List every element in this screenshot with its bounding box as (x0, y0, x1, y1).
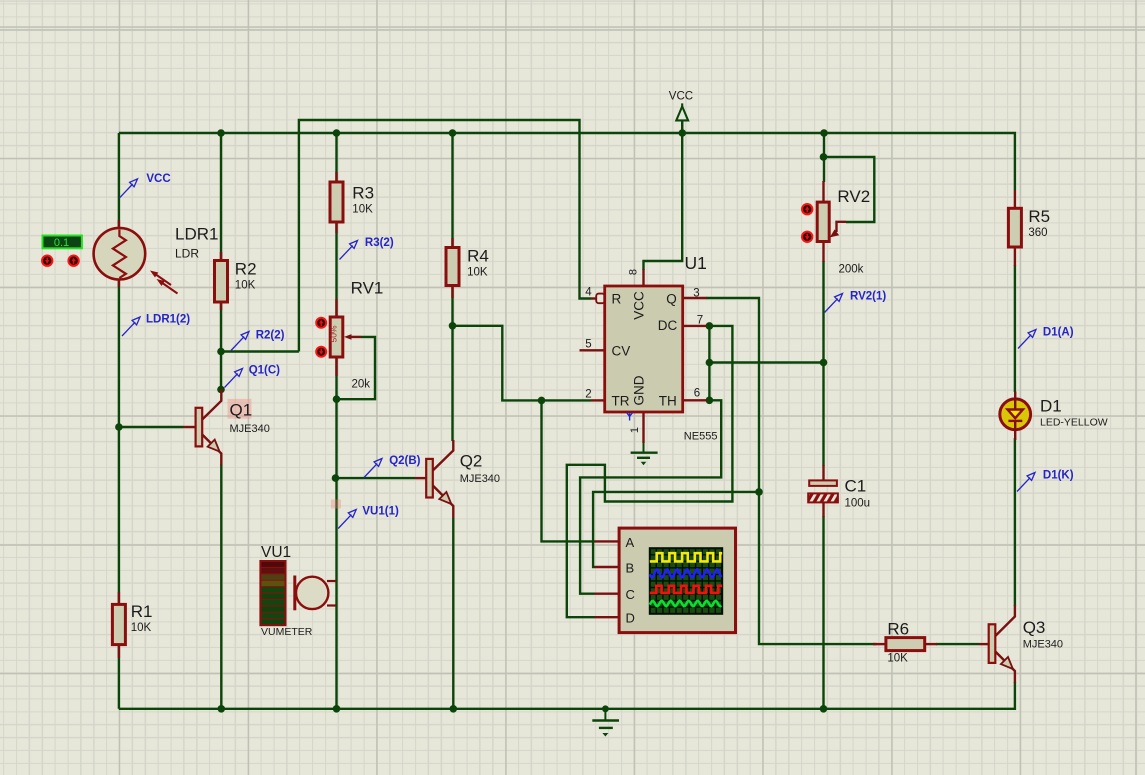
wire R4 junction to 555 TR pin (453, 326, 592, 401)
svg-text:LDR1(2): LDR1(2) (146, 314, 190, 326)
wire R6 to Q3 base (936, 643, 979, 645)
wire RV2 branch from top bus (823, 133, 825, 182)
junction dot bottom bus / VU1 (333, 705, 341, 713)
svg-text:VUMETER: VUMETER (261, 626, 313, 638)
potentiometer RV2 (817, 181, 846, 262)
svg-text:LDR1: LDR1 (175, 225, 218, 244)
svg-text:LED-YELLOW: LED-YELLOW (1040, 417, 1108, 429)
svg-text:U1: U1 (685, 253, 707, 273)
wire C1 bottom to bottom bus (822, 516, 824, 709)
junction dot RV1 bottom (333, 395, 341, 403)
svg-text:VCC: VCC (146, 173, 170, 185)
junction dot top bus / R3 (333, 129, 341, 137)
oscilloscope block (595, 528, 736, 633)
junction dot Q1 collector node (217, 386, 225, 394)
junction dot RV2 bottom / C1 top (820, 359, 828, 367)
junction dot Q/pin3 vertical at scope row (755, 488, 763, 496)
VU1 vumeter bar display (260, 561, 285, 625)
wire R5 to D1 to Q3 collector x=1015 (1014, 265, 1016, 392)
svg-text:8: 8 (628, 269, 640, 275)
oscilloscope screen (650, 548, 722, 614)
svg-text:VU1(1): VU1(1) (362, 506, 399, 518)
transistor Q3 (MJE340) (979, 605, 1015, 683)
net label R2(2) (231, 330, 285, 351)
net label Q2(B) (364, 455, 421, 478)
wire R2 / Q1 collector vertical x=221 (220, 133, 222, 390)
VU1 pin highlight mark (331, 500, 341, 509)
svg-text:R3(2): R3(2) (365, 237, 394, 249)
wire 555 pin3 Q to right vertical x=759 down to R6 (706, 298, 877, 644)
svg-text:C1: C1 (845, 477, 867, 496)
potentiometer RV1 (329, 299, 362, 376)
RV2 down button (802, 232, 812, 242)
net label D1(K) (1017, 470, 1074, 492)
wire DC loop to scope pin D (567, 326, 733, 617)
svg-text:360: 360 (1028, 227, 1047, 239)
ground symbol under 555 (631, 443, 658, 465)
svg-text:Q3: Q3 (1023, 618, 1046, 637)
svg-text:MJE340: MJE340 (1023, 639, 1063, 651)
net label VCC (blue) (120, 173, 171, 198)
svg-text:10K: 10K (887, 653, 908, 665)
scope trace C red square (650, 586, 722, 593)
scope trace A yellow square (650, 553, 722, 561)
RV1 up button (316, 318, 326, 328)
junction dot R2 bottom (217, 348, 225, 356)
wire DC-TH link vertical x=709.4 (708, 326, 710, 400)
junction dot DC-TH midpoint to C1 (706, 359, 714, 367)
Q1 highlight box (228, 399, 252, 419)
RV1 wiper arrow (349, 336, 361, 338)
svg-text:20k: 20k (352, 379, 371, 391)
junction dot top bus / R2 (217, 129, 225, 137)
junction dot Q2 base node (332, 474, 340, 482)
wire RV2 wiper loop (824, 157, 875, 222)
svg-text:B: B (626, 561, 635, 576)
ground symbol on bottom bus (592, 705, 619, 736)
net label D1(A) (1018, 327, 1074, 349)
junction dot DC pin7 (706, 322, 714, 330)
LED D1 yellow (1000, 392, 1031, 441)
svg-text:5: 5 (585, 339, 591, 351)
junction dot top bus / RV2 (820, 129, 828, 137)
svg-text:D: D (626, 611, 635, 626)
svg-text:1: 1 (629, 427, 641, 433)
svg-text:R6: R6 (887, 620, 909, 639)
resistor R4 (446, 238, 459, 298)
svg-text:R2(2): R2(2) (256, 330, 285, 342)
junction dot top bus / R4 (449, 129, 457, 137)
LDR1 torch up button (68, 256, 78, 266)
svg-text:Q1: Q1 (230, 400, 253, 419)
wire RV1 wiper loop (338, 337, 375, 399)
transistor Q2 (MJE340) (415, 440, 453, 518)
svg-text:A: A (626, 535, 635, 550)
svg-text:R1: R1 (131, 602, 153, 621)
svg-text:DC: DC (658, 318, 678, 333)
svg-text:NE555: NE555 (684, 431, 718, 443)
op-amp-timer U1 NE555 body (580, 269, 707, 443)
junction dot TH pin6 (706, 397, 714, 405)
wire D1 cathode to Q3 collector (1014, 438, 1016, 606)
svg-text:VU1: VU1 (261, 544, 291, 561)
svg-text:Q1(C): Q1(C) (249, 365, 280, 377)
svg-text:RV2: RV2 (837, 187, 870, 206)
wire second bus y=120 (R2 bottom to 555 pin R) (299, 120, 591, 352)
wire RV2 bottom to C1 and bottom bus x=823.5 (822, 261, 824, 466)
wire VCC symbol stem down to bus x=682.3 (644, 121, 683, 270)
net label VU1(1) (338, 506, 399, 529)
svg-text:LDR: LDR (175, 247, 199, 261)
svg-text:2: 2 (585, 389, 591, 401)
net label Q1(C) (225, 365, 281, 388)
resistor R3 (330, 172, 343, 233)
svg-text:VCC: VCC (632, 291, 647, 320)
VU1 meter movement symbol (295, 576, 337, 611)
svg-text:MJE340: MJE340 (230, 423, 270, 435)
svg-text:D1: D1 (1040, 397, 1062, 416)
svg-text:VCC: VCC (669, 91, 693, 103)
svg-text:0.1: 0.1 (54, 237, 69, 249)
svg-text:D1(K): D1(K) (1043, 470, 1074, 482)
svg-text:RV2(1): RV2(1) (850, 291, 886, 303)
transistor Q1 (MJE340) (184, 389, 222, 465)
wire R4 vertical and Q2 collector x=452.5 (451, 133, 453, 441)
RV2 wiper arrow (837, 222, 847, 232)
wire left vertical LDR/R1 branch x=119 (118, 133, 120, 709)
svg-text:GND: GND (632, 375, 647, 405)
RV1 down button (316, 347, 326, 357)
capacitor C1 electrolytic (808, 465, 838, 517)
svg-text:MJE340: MJE340 (460, 473, 500, 485)
svg-text:C: C (626, 587, 635, 602)
svg-text:R: R (612, 292, 622, 307)
net label R3(2) (340, 237, 394, 260)
resistor R6 horizontal (873, 638, 937, 651)
resistor R1 (112, 592, 125, 658)
svg-text:10K: 10K (467, 267, 488, 279)
LDR1 photoresistor (94, 220, 178, 294)
svg-text:D1(A): D1(A) (1043, 327, 1074, 339)
resistor R5 (1008, 190, 1021, 266)
svg-text:R3: R3 (352, 184, 374, 203)
svg-text:Q: Q (666, 292, 677, 307)
svg-text:3: 3 (693, 288, 699, 300)
resistor R2 (215, 252, 228, 310)
blue probe mark at 555 GND pin (627, 413, 633, 421)
RV2 up button (802, 204, 812, 214)
svg-text:6: 6 (694, 388, 700, 400)
wire Q1 base horizontal y=427 (119, 426, 184, 428)
svg-text:RV1: RV1 (351, 279, 384, 298)
wire Q1 emitter down to bottom bus (220, 464, 222, 709)
svg-text:10K: 10K (352, 204, 373, 216)
svg-text:R2: R2 (235, 260, 257, 279)
net label RV2(1) (825, 291, 887, 313)
junction dot Q1 base node (115, 423, 123, 431)
net label LDR1(2) (122, 314, 190, 337)
scope trace D green sine (650, 601, 722, 606)
wire Q3 emitter to bottom bus corner (119, 682, 1015, 709)
wire TR net to scope pin A (542, 400, 595, 541)
wire R3/RV1 vertical x=336.5 (335, 133, 337, 709)
svg-text:100u: 100u (845, 498, 871, 510)
svg-text:Q2(B): Q2(B) (389, 455, 420, 467)
wire DC/TH to C1 top horizontal y=362.5 (709, 361, 823, 363)
scope trace B blue sine (650, 569, 722, 577)
svg-text:R5: R5 (1028, 207, 1050, 226)
wire top VCC bus y=133 with corner down to R5 (119, 133, 1015, 190)
LDR1 light arrows (153, 273, 178, 294)
wire R2 bottom junction horizontal y=351.5 (221, 350, 299, 352)
junction dot RV2 top loop (820, 153, 828, 161)
wire Q2 emitter down to bottom bus x=453.3 (452, 518, 454, 709)
svg-text:200k: 200k (839, 264, 864, 276)
svg-text:TR: TR (612, 394, 630, 409)
junction dot bottom bus / Q2 emitter (450, 705, 458, 713)
wire Q2 base horizontal y=478.1 (336, 477, 416, 479)
junction dot bottom bus / C1 (820, 705, 828, 713)
svg-text:CV: CV (612, 344, 631, 359)
svg-text:10K: 10K (131, 622, 152, 634)
svg-text:R4: R4 (467, 247, 489, 266)
wire TH loop to scope pin C (580, 400, 721, 593)
junction dot bottom bus / Q1 emitter (218, 705, 226, 713)
svg-text:Q2: Q2 (460, 451, 483, 470)
svg-text:4: 4 (585, 287, 592, 299)
LDR1 torch display 0.1 (43, 236, 82, 249)
power symbol VCC top (669, 91, 693, 134)
svg-text:TH: TH (659, 394, 677, 409)
junction dot top bus / VCC (679, 129, 687, 137)
svg-text:10K: 10K (235, 280, 256, 292)
LDR1 torch down button (42, 256, 52, 266)
junction dot TR node (538, 397, 546, 405)
svg-text:50%: 50% (329, 325, 339, 342)
junction dot R4 bottom (449, 322, 457, 330)
wire Q net to scope pin B (593, 492, 759, 567)
svg-text:7: 7 (697, 315, 703, 327)
